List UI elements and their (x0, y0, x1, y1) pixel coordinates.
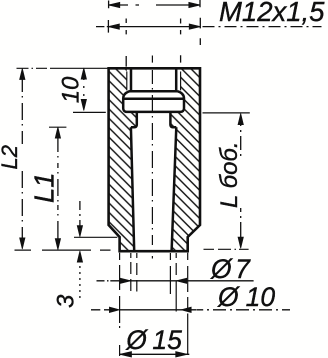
part outer outline (109, 68, 200, 251)
top face extension line to the left (17, 67, 108, 69)
neck walls (134, 112, 173, 127)
dimension L2 line (21, 79, 23, 239)
dimension row1 (outer dia, label cropped) (109, 0, 200, 8)
hatched wall section fill (109, 68, 200, 251)
svg-text:L2: L2 (0, 145, 22, 169)
svg-text:10: 10 (58, 76, 85, 103)
svg-text:L боб.: L боб. (216, 141, 243, 208)
dimension L1 line (57, 138, 59, 239)
dimension O15 row (120, 353, 190, 355)
L1 top extension stub at y127 (49, 126, 66, 128)
step shoulders (131, 126, 176, 129)
inner bore: threaded cavity walls (130, 68, 178, 91)
svg-text:Ø15: Ø15 (125, 325, 182, 355)
right: extension line at y112.9 (203, 112, 250, 114)
extension line at y237 (74, 236, 117, 238)
bottom face extension to the right (204, 248, 249, 250)
dimension M12x1,5 (row2) (96, 18, 322, 67)
bead equator thick line (123, 98, 184, 101)
stem tapered bore walls (131, 127, 176, 251)
dimension O10 row (91, 309, 290, 311)
bead (internal groove) outline (123, 91, 184, 112)
vertical axis centerline (151, 56, 153, 259)
extension line at y112 (left of part) (73, 111, 106, 113)
thread thin lines (127, 72, 181, 91)
dimension 3 (79, 201, 81, 298)
svg-text:M12x1,5: M12x1,5 (219, 0, 325, 27)
dimension 10 line (83, 78, 85, 102)
svg-text:3: 3 (53, 294, 80, 308)
svg-text:L1: L1 (29, 172, 60, 203)
svg-text:Ø10: Ø10 (217, 282, 275, 312)
vertical extension lines below part (120, 253, 188, 356)
svg-text:Ø7: Ø7 (210, 254, 251, 284)
dimension L bob line (240, 124, 242, 237)
dimension O7 row (97, 280, 254, 282)
bottom face extension line to the left (15, 249, 111, 251)
